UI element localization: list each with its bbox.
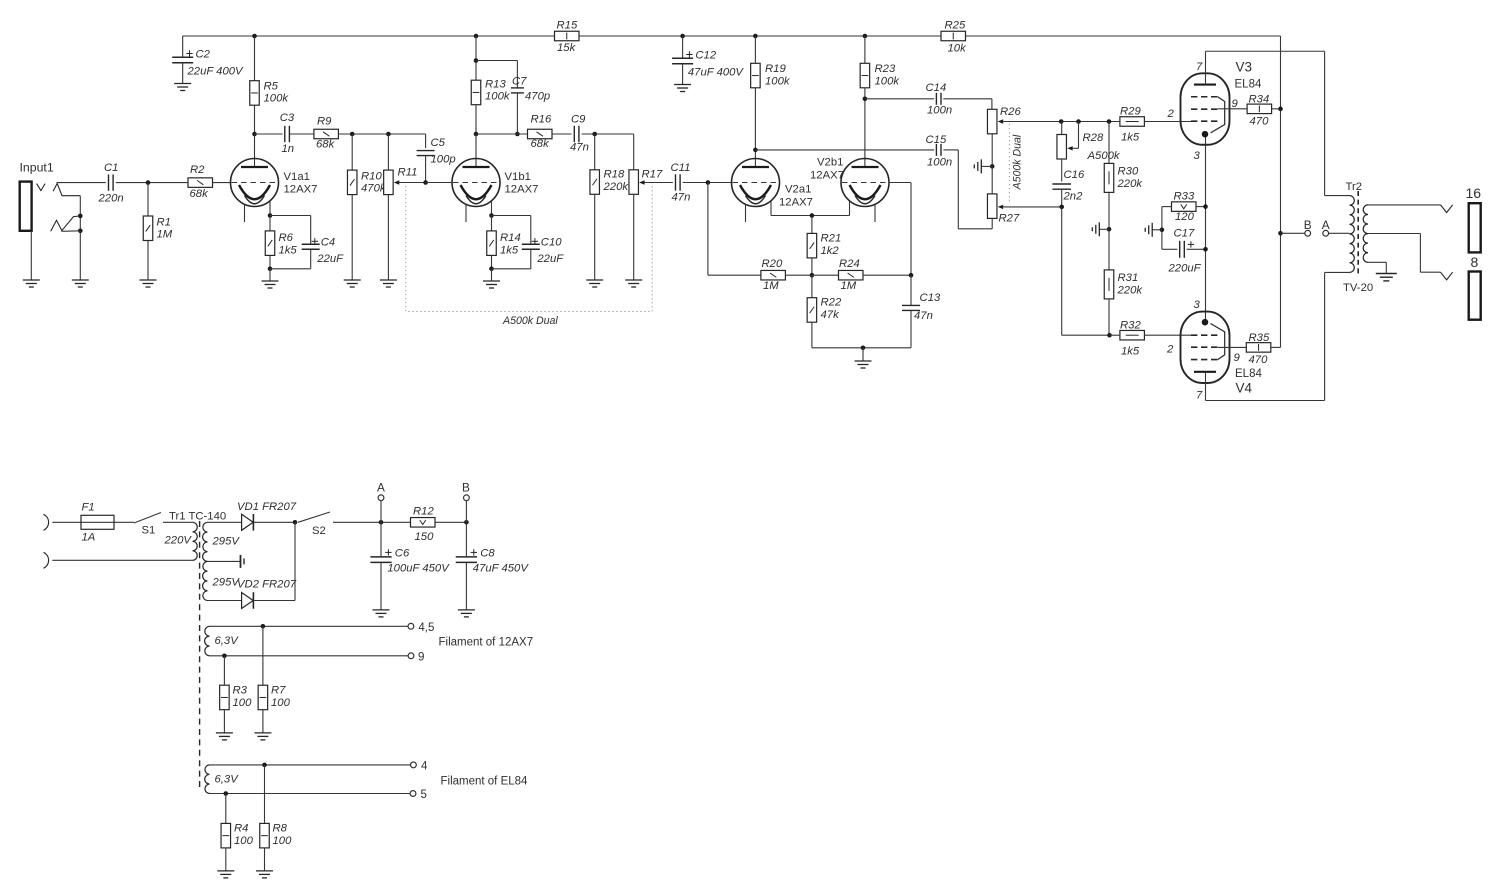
- terminal B psu: [462, 481, 470, 523]
- wire VD1-S2: [253, 521, 295, 523]
- resistor R29: [1120, 106, 1192, 144]
- terminal 5: [410, 789, 427, 801]
- node C17 right: [1203, 247, 1208, 252]
- svg-text:S2: S2: [312, 525, 326, 537]
- label filament 12AX7: [439, 637, 534, 649]
- ground R3: [216, 733, 233, 740]
- terminal 9: [408, 652, 424, 664]
- svg-text:68k: 68k: [190, 188, 210, 200]
- svg-text:9: 9: [418, 652, 424, 664]
- jack switch arm: [53, 183, 80, 280]
- svg-text:R7: R7: [271, 685, 286, 697]
- svg-text:C16: C16: [1064, 169, 1085, 181]
- svg-text:1k5: 1k5: [1121, 346, 1140, 358]
- node R31 bottom: [1107, 333, 1112, 338]
- capacitor C6: [370, 522, 450, 610]
- svg-text:EL84: EL84: [1235, 79, 1262, 91]
- jack tip contact: [37, 184, 46, 191]
- svg-text:47n: 47n: [914, 310, 933, 322]
- svg-text:R15: R15: [557, 20, 578, 32]
- tube V3: [1181, 73, 1230, 144]
- svg-text:1k5: 1k5: [500, 245, 519, 257]
- svg-text:3: 3: [1194, 299, 1201, 311]
- svg-text:VD2 FR207: VD2 FR207: [237, 579, 297, 591]
- capacitor C8: [456, 522, 530, 610]
- wire tail ground bus: [812, 347, 911, 349]
- wire 8ohm tap: [1368, 234, 1453, 280]
- svg-text:F1: F1: [82, 502, 95, 514]
- wire R27 wiper: [998, 205, 1062, 209]
- node R11 top: [386, 132, 391, 137]
- node screen-B: [1278, 231, 1283, 236]
- wire VD2-node: [253, 522, 295, 600]
- wire R6-ground: [269, 269, 271, 281]
- svg-text:A500k: A500k: [1087, 150, 1121, 162]
- resistor R32: [1110, 320, 1192, 358]
- wire C1-R2: [116, 182, 188, 184]
- svg-text:100n: 100n: [927, 157, 952, 169]
- capacitor C15: [755, 134, 992, 229]
- terminal 8ohm: [1469, 254, 1481, 320]
- svg-text:V3: V3: [1236, 60, 1253, 75]
- svg-text:R31: R31: [1118, 272, 1139, 284]
- svg-text:47n: 47n: [570, 142, 589, 154]
- resistor R4: [221, 794, 254, 871]
- wire B+ rail top: [183, 35, 1281, 37]
- label V2b1: [810, 157, 844, 182]
- tube V1b1: [452, 159, 500, 223]
- ground R4: [217, 871, 234, 878]
- svg-text:470p: 470p: [525, 91, 550, 103]
- wire C9-R18: [582, 133, 634, 135]
- svg-text:R5: R5: [264, 81, 279, 93]
- ground C8: [458, 610, 475, 617]
- svg-text:100k: 100k: [264, 93, 290, 105]
- svg-text:V1b1: V1b1: [505, 171, 531, 183]
- capacitor C5: [417, 134, 456, 183]
- svg-text:R27: R27: [999, 213, 1020, 225]
- svg-text:295V: 295V: [212, 536, 241, 548]
- wire tail gnd stem: [862, 348, 864, 361]
- svg-text:R19: R19: [765, 63, 786, 75]
- svg-text:100: 100: [233, 697, 253, 709]
- svg-text:B: B: [462, 481, 470, 495]
- svg-text:470: 470: [1250, 116, 1270, 128]
- svg-text:C13: C13: [920, 292, 941, 304]
- svg-text:Tr2: Tr2: [1346, 181, 1363, 193]
- svg-text:Tr1 TC-140: Tr1 TC-140: [169, 511, 226, 523]
- svg-text:R13: R13: [485, 79, 506, 91]
- resistor R23: [860, 36, 900, 167]
- svg-text:7: 7: [1196, 390, 1203, 402]
- AC prong top: [44, 514, 82, 530]
- wire V2b grid: [889, 183, 911, 276]
- svg-text:C7: C7: [512, 76, 527, 88]
- wire HV center tap: [208, 560, 241, 562]
- wire fil2 top: [210, 764, 411, 766]
- ground R18: [586, 280, 603, 287]
- pot gang link A500k Dual: [406, 186, 652, 327]
- wire screen-supply vertical: [1280, 36, 1282, 347]
- label V3 pins: [1167, 61, 1239, 162]
- svg-text:47uF 400V: 47uF 400V: [688, 67, 745, 79]
- svg-text:C9: C9: [571, 114, 586, 126]
- transformer Tr1 filament2: [205, 765, 239, 794]
- svg-text:C15: C15: [926, 134, 947, 146]
- svg-text:220k: 220k: [1117, 178, 1144, 190]
- jack Input1 body: [20, 182, 32, 280]
- svg-text:R11: R11: [398, 167, 418, 179]
- tube V1a1: [231, 159, 279, 223]
- svg-text:C12: C12: [695, 50, 716, 62]
- node V2b plate: [863, 97, 868, 102]
- wire fil1 top: [210, 625, 409, 627]
- svg-text:2: 2: [1166, 344, 1174, 356]
- resistor R1: [143, 183, 173, 280]
- node V1b cathode: [489, 213, 494, 218]
- svg-text:S1: S1: [142, 525, 156, 537]
- label V1b1: [505, 171, 539, 196]
- fuse F1: [81, 502, 134, 544]
- wire V3 plate: [1206, 51, 1325, 195]
- node rail-R23: [863, 34, 868, 39]
- resistor R5: [250, 36, 290, 134]
- resistor R35: [1246, 332, 1280, 366]
- svg-text:A: A: [1322, 218, 1330, 232]
- svg-text:16: 16: [1466, 185, 1482, 201]
- svg-text:VD1 FR207: VD1 FR207: [237, 501, 297, 513]
- wire V1b grid: [426, 182, 453, 184]
- node rail-C12: [680, 34, 685, 39]
- resistor R2: [188, 164, 231, 200]
- wire A-center tap: [1329, 232, 1350, 234]
- svg-text:15k: 15k: [557, 42, 577, 54]
- jack lower contact: [51, 216, 81, 231]
- wire HV bottom: [208, 600, 242, 602]
- svg-text:1M: 1M: [763, 280, 779, 292]
- transformer Tr2 label: [1346, 181, 1363, 193]
- node tail gnd: [861, 346, 866, 351]
- svg-text:4: 4: [421, 761, 428, 773]
- ground C6: [373, 610, 390, 617]
- svg-text:2: 2: [1167, 108, 1175, 120]
- ground R17: [625, 280, 642, 287]
- resistor R15: [555, 20, 580, 55]
- ground R14: [483, 281, 500, 288]
- svg-text:470k: 470k: [361, 183, 387, 195]
- node C5 bottom: [423, 180, 428, 185]
- diode VD2: [237, 579, 297, 609]
- svg-text:R28: R28: [1083, 132, 1104, 144]
- ground secondary: [1376, 274, 1397, 281]
- svg-text:12AX7: 12AX7: [810, 170, 844, 182]
- svg-text:V1a1: V1a1: [284, 171, 310, 183]
- label V3: [1235, 60, 1262, 91]
- svg-text:R20: R20: [762, 258, 783, 270]
- svg-text:22uF 400V: 22uF 400V: [187, 66, 245, 78]
- node V1b plate: [474, 132, 479, 137]
- node R34 right: [1278, 107, 1283, 112]
- svg-text:5: 5: [421, 789, 427, 801]
- svg-text:C4: C4: [321, 237, 335, 249]
- svg-text:A500k Dual: A500k Dual: [502, 315, 558, 327]
- svg-text:Filament of EL84: Filament of EL84: [441, 776, 529, 788]
- svg-text:9: 9: [1234, 352, 1241, 364]
- node A-C6: [379, 520, 384, 525]
- resistor R16: [528, 114, 572, 151]
- wire V3 g2: [1218, 108, 1247, 110]
- node R10 top: [350, 132, 355, 137]
- label filament EL84: [441, 776, 529, 788]
- tube V2b1: [841, 159, 889, 223]
- svg-text:47n: 47n: [672, 192, 691, 204]
- wire R26 wiper: [998, 119, 1120, 123]
- capacitor C7: [476, 61, 550, 135]
- svg-text:C10: C10: [541, 237, 562, 249]
- svg-text:C11: C11: [671, 162, 691, 174]
- svg-text:C5: C5: [431, 137, 446, 149]
- svg-text:7: 7: [1196, 61, 1203, 73]
- wire secondary gnd: [1368, 262, 1386, 273]
- ground jack-switch: [72, 280, 89, 287]
- wire V1b plate lead: [475, 134, 477, 167]
- svg-text:68k: 68k: [316, 139, 336, 151]
- svg-text:R6: R6: [279, 232, 294, 244]
- svg-text:C8: C8: [480, 548, 495, 560]
- svg-text:R26: R26: [1000, 106, 1021, 118]
- transformer Tr1 core: [199, 521, 201, 790]
- wire plate-R16: [476, 133, 528, 135]
- node fil2-R8: [262, 763, 267, 768]
- label A500k Dual vertical: [1012, 134, 1024, 190]
- label V1a1: [284, 171, 318, 196]
- node R21 bottom: [810, 273, 815, 278]
- node cathode bus: [810, 213, 815, 218]
- svg-text:R10: R10: [361, 171, 382, 183]
- svg-text:12AX7: 12AX7: [779, 197, 813, 209]
- capacitor C1: [98, 162, 124, 205]
- svg-text:V2b1: V2b1: [817, 157, 843, 169]
- svg-text:10k: 10k: [948, 43, 968, 55]
- svg-text:R30: R30: [1118, 166, 1139, 178]
- svg-text:4,5: 4,5: [418, 622, 434, 634]
- svg-text:47k: 47k: [821, 309, 841, 321]
- svg-text:R4: R4: [234, 823, 248, 835]
- node wiper-R30: [1107, 119, 1112, 124]
- tube V2a1: [732, 159, 780, 223]
- svg-text:C1: C1: [104, 162, 118, 174]
- svg-text:Filament of 12AX7: Filament of 12AX7: [439, 637, 534, 649]
- wire R17 wiper: [639, 180, 673, 184]
- svg-text:R16: R16: [531, 114, 552, 126]
- node mid R26R27: [990, 164, 995, 169]
- terminal 4: [411, 761, 429, 773]
- resistor R25: [941, 20, 967, 55]
- svg-text:9: 9: [1232, 98, 1239, 110]
- svg-text:47uF 450V: 47uF 450V: [473, 563, 530, 575]
- ground mid pots: [974, 159, 992, 173]
- wire to R32: [1062, 207, 1110, 335]
- capacitor C11: [671, 162, 691, 204]
- resistor R20: [708, 183, 839, 293]
- wire S2-A: [333, 521, 410, 523]
- svg-text:R9: R9: [317, 116, 332, 128]
- svg-text:EL84: EL84: [1235, 368, 1262, 380]
- wire HV top: [208, 521, 242, 523]
- node jack sw1: [78, 214, 83, 219]
- potentiometer R11: [384, 134, 418, 280]
- wire fil2 bottom: [210, 793, 411, 795]
- pot gang link dual: [1008, 124, 1010, 204]
- ground R7: [254, 733, 271, 740]
- svg-text:C3: C3: [280, 112, 295, 124]
- capacitor C3: [255, 112, 295, 155]
- svg-text:R18: R18: [604, 169, 625, 181]
- node R27wiper-C16: [1059, 205, 1064, 210]
- ground R6: [262, 281, 279, 288]
- transformer Tr1 label: [169, 511, 226, 523]
- node fil1-R7: [261, 624, 266, 629]
- svg-text:100: 100: [271, 697, 291, 709]
- node rail-R5: [252, 34, 257, 39]
- svg-text:100n: 100n: [927, 105, 952, 117]
- transformer Tr1 filament1: [205, 626, 240, 656]
- wire S1-Tr1: [163, 521, 193, 523]
- node B-C8: [464, 520, 469, 525]
- svg-text:V2a1: V2a1: [785, 184, 811, 196]
- ground R11: [380, 280, 397, 287]
- resistor R13: [471, 36, 511, 134]
- transformer Tr2 primary: [1325, 196, 1355, 273]
- svg-text:1k2: 1k2: [821, 245, 840, 257]
- ground R30R31: [1092, 222, 1109, 236]
- node V1a plate: [252, 132, 257, 137]
- wire R11 wiper: [394, 180, 426, 184]
- svg-text:R2: R2: [190, 164, 205, 176]
- svg-text:R29: R29: [1120, 106, 1141, 118]
- svg-text:A500k Dual: A500k Dual: [1012, 134, 1024, 190]
- svg-text:220k: 220k: [603, 181, 630, 193]
- svg-text:8: 8: [1471, 254, 1479, 270]
- resistor R34: [1247, 94, 1280, 128]
- svg-text:R3: R3: [233, 685, 248, 697]
- svg-text:R34: R34: [1249, 94, 1270, 106]
- wire 16ohm tap: [1368, 205, 1453, 213]
- resistor R19: [751, 36, 791, 167]
- capacitor C13: [902, 275, 941, 348]
- resistor R14: [487, 216, 521, 269]
- node R13-C7 top: [474, 58, 479, 63]
- svg-text:R32: R32: [1120, 320, 1141, 332]
- ground R33C17: [1145, 223, 1162, 237]
- node V2a plate: [753, 148, 758, 153]
- terminal 4,5: [408, 622, 434, 634]
- svg-text:A: A: [377, 481, 385, 495]
- node C11-R20: [706, 180, 711, 185]
- terminal A psu: [377, 481, 385, 523]
- svg-text:TV-20: TV-20: [1343, 282, 1373, 294]
- svg-text:1n: 1n: [282, 143, 295, 155]
- capacitor C12: [672, 36, 744, 85]
- capacitor C4: [270, 216, 344, 269]
- svg-text:R1: R1: [157, 217, 171, 229]
- resistor R9: [289, 116, 425, 151]
- svg-text:100k: 100k: [485, 91, 511, 103]
- svg-text:120: 120: [1175, 211, 1195, 223]
- svg-text:150: 150: [415, 531, 435, 543]
- label V4 pins: [1166, 299, 1241, 402]
- ground tail: [855, 361, 872, 368]
- label V2a1: [779, 184, 813, 209]
- svg-text:C2: C2: [196, 49, 211, 61]
- ground R10: [344, 280, 361, 287]
- node R33C17 gnd: [1160, 228, 1165, 233]
- node R33 right: [1203, 204, 1208, 209]
- wire V4 g2: [1218, 346, 1247, 348]
- capacitor C17: [1162, 228, 1206, 275]
- node R14 bottom: [489, 267, 494, 272]
- svg-text:1k5: 1k5: [1121, 132, 1140, 144]
- wire R14-ground: [491, 269, 493, 281]
- svg-text:R25: R25: [945, 20, 966, 32]
- svg-text:R8: R8: [273, 823, 288, 835]
- wire B terminal: [1281, 232, 1305, 234]
- node fil1-R3: [222, 654, 227, 659]
- svg-text:R22: R22: [821, 297, 842, 309]
- svg-text:100k: 100k: [875, 76, 901, 88]
- resistor R6: [265, 216, 297, 269]
- node rectifier out: [293, 520, 298, 525]
- node R24-C13: [909, 273, 914, 278]
- svg-text:22uF: 22uF: [536, 253, 564, 265]
- tube V4: [1181, 312, 1230, 383]
- svg-text:22uF: 22uF: [316, 253, 344, 265]
- node jack sw2: [78, 229, 83, 234]
- resistor R31: [1104, 229, 1143, 335]
- terminal A: [1322, 218, 1330, 236]
- resistor R33: [1162, 191, 1206, 224]
- svg-text:220V: 220V: [164, 535, 193, 547]
- wire cathode bus: [771, 215, 850, 217]
- ground C2: [174, 84, 191, 91]
- resistor R24: [839, 258, 912, 292]
- svg-text:R24: R24: [839, 258, 860, 270]
- switch S2: [298, 512, 330, 537]
- chassis HV tap: [241, 555, 245, 568]
- svg-text:220k: 220k: [1117, 285, 1144, 297]
- wire fil1 bottom: [210, 655, 409, 657]
- svg-text:V4: V4: [1236, 381, 1253, 396]
- svg-text:R17: R17: [642, 169, 663, 181]
- resistor R18: [590, 134, 629, 280]
- label V4: [1235, 368, 1262, 396]
- terminal 16ohm: [1466, 185, 1482, 252]
- svg-text:470: 470: [1249, 354, 1269, 366]
- node C7 bottom: [515, 132, 520, 137]
- node wiper-R28top: [1059, 119, 1064, 124]
- wire input: [57, 182, 106, 184]
- transformer Tr1 HV secondary: [203, 522, 241, 600]
- svg-text:220n: 220n: [98, 193, 124, 205]
- capacitor C16: [1052, 169, 1085, 207]
- potentiometer R27: [987, 166, 1019, 224]
- diode VD1: [237, 501, 297, 531]
- label Input1: [20, 161, 54, 175]
- ground C12: [674, 85, 691, 92]
- node R30 bottom: [1107, 227, 1112, 232]
- svg-text:100k: 100k: [765, 76, 791, 88]
- svg-text:C17: C17: [1174, 228, 1195, 240]
